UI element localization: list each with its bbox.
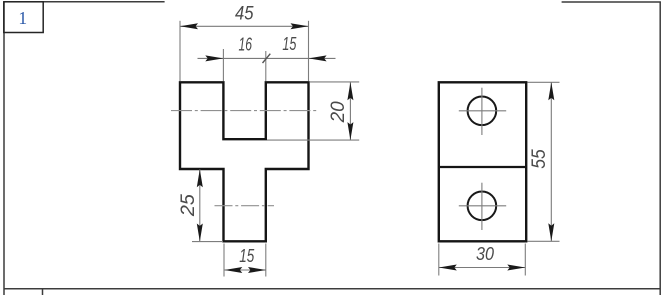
extension line left for bottom 15 [223, 244, 225, 277]
dimension 55 top arrow [548, 82, 554, 100]
lower hole vertical centerline [481, 183, 483, 230]
dimension 55 line [550, 82, 552, 241]
right view middle split line [439, 166, 526, 168]
lower hole horizontal centerline [459, 205, 506, 207]
sheet number box [4, 2, 43, 33]
svg-text:20: 20 [327, 101, 349, 123]
dimension 25 bottom arrow [197, 224, 203, 242]
frame top line right segment [562, 1, 661, 3]
extension line left of 45 [179, 21, 181, 81]
frame left line [3, 2, 5, 295]
svg-text:15: 15 [282, 34, 297, 54]
dimension 45 line [180, 25, 309, 27]
extension line bottom for 55 [528, 240, 560, 242]
dimension 25 top arrow [197, 169, 203, 187]
extension line slot right for 16/15 [265, 51, 267, 81]
dimension 25 line [199, 169, 201, 241]
svg-text:45: 45 [235, 4, 254, 25]
title block divider [42, 289, 44, 295]
lower hole [468, 192, 497, 221]
dimension 15 right arrow (outside) [309, 55, 327, 61]
right view: plate outline [439, 82, 526, 241]
dimension 16/15 line [198, 57, 336, 59]
dimension 55 bottom arrow [548, 223, 554, 241]
dimension 30 line [439, 267, 526, 269]
dimension 30 left arrow [439, 265, 457, 271]
extension line left for 30 [438, 244, 440, 276]
svg-text:25: 25 [177, 194, 199, 217]
svg-text:30: 30 [476, 244, 494, 264]
upper hole [468, 97, 497, 126]
dimension 20 top arrow [347, 82, 353, 100]
dimension 15 bottom left arrow [224, 267, 242, 273]
extension line top for 55 [528, 81, 560, 83]
svg-text:1: 1 [18, 8, 27, 28]
frame top line left segment [4, 1, 165, 3]
dimension 20 line [349, 82, 351, 140]
upper hole vertical centerline [481, 88, 483, 135]
extension line for 25 bottom [192, 241, 223, 243]
frame right line [659, 2, 661, 295]
extension line top for 20 [310, 81, 359, 83]
svg-text:16: 16 [239, 34, 253, 54]
dimension 20 bottom arrow [347, 122, 353, 140]
svg-text:55: 55 [528, 149, 550, 169]
dimension 45 right arrow [291, 23, 309, 29]
extension line right for 30 [524, 244, 526, 276]
extension line right of 45/15 [308, 21, 310, 81]
frame bottom line (title block top) [4, 288, 660, 290]
extension line right for bottom 15 [265, 244, 267, 277]
extension line slot left for 16 [222, 49, 224, 81]
left view horizontal centerline [171, 110, 319, 112]
dimension 15 bottom right arrow [248, 267, 266, 273]
upper hole horizontal centerline [459, 110, 506, 112]
left view leg centerline [215, 205, 275, 207]
dimension 30 right arrow [507, 265, 525, 271]
left view: part outline [180, 82, 309, 241]
extension line bottom for 20 [267, 139, 359, 141]
dimension 16/15 divider slash [263, 54, 271, 63]
dimension 15 bottom line [224, 269, 266, 271]
dimension 45 left arrow [180, 23, 198, 29]
svg-text:15: 15 [239, 246, 255, 266]
dimension 16 left arrow (outside) [205, 55, 223, 61]
